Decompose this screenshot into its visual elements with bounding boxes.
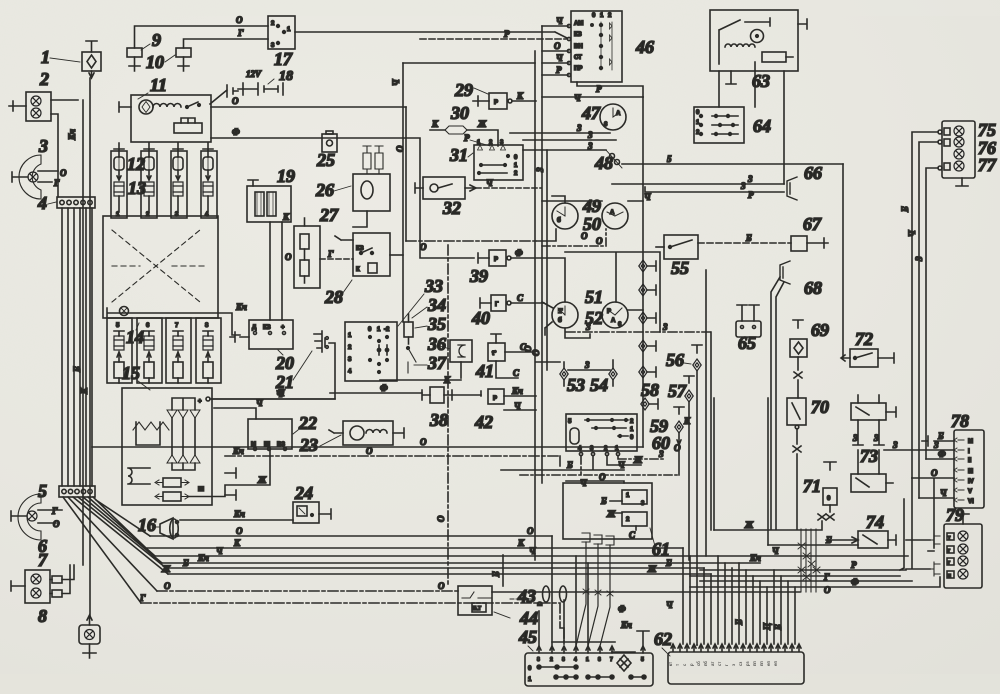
svg-text:+: + [198,399,202,405]
wire 2 to vertical [51,100,78,197]
connector 48 [606,150,622,168]
ignition switch 33 [345,322,397,381]
ammeter 47 [600,104,626,130]
svg-text:22: 22 [298,413,317,433]
hazard switches 73 [851,395,896,492]
svg-text:К: К [282,212,290,222]
wiper switch 60 [566,414,637,456]
svg-text:Кч: Кч [511,386,523,396]
svg-text:23: 23 [299,435,318,455]
gauge 52 [602,302,628,328]
svg-text:8: 8 [38,606,47,626]
label 9 [141,30,161,50]
svg-text:С: С [629,530,636,540]
trunk vertical З [535,150,547,370]
svg-text:Г: Г [139,593,146,603]
svg-text:Ф: Ф [618,604,626,614]
svg-text:О: О [420,242,427,252]
svg-text:3: 3 [584,360,590,370]
svg-text:30: 30 [450,103,469,123]
svg-text:3: 3 [747,174,753,184]
connector strip 62 [668,644,804,684]
svg-text:38: 38 [429,410,448,430]
wire О dash vertical [436,245,448,586]
svg-text:О: О [236,15,243,25]
resistor 9 [127,48,142,71]
svg-text:Р: Р [464,133,470,143]
switch 32 [415,177,476,199]
svg-text:Р: Р [851,560,857,570]
svg-text:42: 42 [474,412,493,432]
fuse column 3 [171,149,187,218]
bus Б right [768,535,858,545]
svg-text:Б: Б [734,619,744,626]
svg-text:Р: Р [607,309,611,315]
bracket connectors 79 [906,534,940,576]
spark unit 22 [248,419,292,451]
lamp cluster 79 [944,514,982,588]
bus Ч [155,546,908,556]
svg-text:Б: Б [491,571,501,578]
svg-text:Ж: Ж [161,564,171,574]
flasher relay 1 [82,41,101,78]
svg-text:14: 14 [126,327,144,347]
connector 56 [692,345,702,645]
svg-text:КЗ: КЗ [263,325,271,331]
svg-text:Р: Р [556,65,562,75]
svg-text:44: 44 [519,608,538,628]
svg-text:Д: Д [252,325,257,331]
label 14 [126,323,144,347]
central switch 46 [571,11,622,82]
wire vertical B [82,100,84,565]
label 23 [299,435,341,455]
label 26 [315,180,351,200]
bus Кч [162,553,761,563]
svg-text:Б: Б [825,535,832,545]
svg-text:IV: IV [968,479,974,485]
vertical З trunk [391,63,405,322]
connector 68 [780,261,790,284]
wire labels 5-6 [51,506,60,529]
verticals from buses up [900,478,934,570]
svg-text:О: О [285,252,292,262]
svg-text:СТ: СТ [574,55,582,61]
connector 59 [674,407,691,475]
connector 53 [560,362,568,386]
label 21 [275,351,312,392]
svg-text:-2: -2 [384,327,390,333]
fuse panel 78 [954,430,984,508]
lamp unit 7-8 [11,565,74,603]
svg-text:К: К [431,119,439,129]
bus О dash [157,581,458,591]
marker connector column [639,97,656,447]
svg-text:71: 71 [803,476,821,496]
wire 5 vertical to 72 [842,164,844,358]
svg-text:29: 29 [454,80,473,100]
connector 66 [787,177,797,200]
svg-text:VI: VI [968,499,974,505]
svg-text:II: II [968,458,972,464]
motor 23 [329,421,404,445]
svg-text:Б: Б [937,431,944,441]
fuses 43 [492,586,800,606]
svg-text:65: 65 [738,333,756,353]
fuse 30 [430,119,498,146]
svg-text:Ч: Ч [666,600,673,610]
svg-text:Ч: Ч [391,79,401,86]
svg-text:III: III [968,469,973,475]
relay 39 [478,248,565,302]
label 11 [138,75,167,99]
svg-text:47: 47 [581,103,601,123]
wire frame verticals mid [706,270,711,556]
svg-text:2: 2 [39,69,49,89]
svg-text:3: 3 [740,181,746,191]
wire З to 78 [884,440,954,450]
fuse block lower 6 [137,318,162,383]
svg-text:41: 41 [475,361,494,381]
svg-text:Ж: Ж [633,455,643,465]
drops into 62 right [739,563,795,644]
svg-text:Ч: Ч [486,178,493,188]
svg-text:А: А [616,111,621,117]
svg-text:Б: Б [182,558,189,568]
svg-text:7: 7 [610,657,613,663]
wires gauge tops [542,192,651,203]
svg-text:т: т [675,664,680,666]
fuse box 45 [525,631,653,686]
svg-text:69: 69 [811,320,829,340]
svg-text:15: 15 [122,363,140,383]
svg-text:3: 3 [587,130,593,140]
clamp 36 [380,340,472,385]
svg-text:51: 51 [585,287,603,307]
svg-text:36: 36 [427,334,446,354]
wire loom verticals left [62,208,92,486]
svg-text:Ш: Ш [198,487,204,493]
bus Ф right [700,577,912,587]
svg-text:D: D [538,601,544,606]
svg-text:К: К [79,387,89,395]
svg-text:64: 64 [753,116,771,136]
svg-text:О: О [596,236,603,246]
wire vertical K [89,78,91,616]
svg-text:С: С [517,293,524,303]
wire labels right verticals [900,206,924,262]
wire Б dash 55 to 67 [698,233,791,243]
svg-text:К: К [683,416,691,426]
label 44 [494,608,538,628]
wire 19 down to 20 [270,222,282,320]
wire O from 11 [211,96,406,107]
switch 37 [407,347,416,373]
ignition unit 20 [230,320,293,349]
label 10 [146,52,175,72]
svg-text:З: З [892,440,898,450]
svg-text:5: 5 [667,154,672,164]
svg-text:67: 67 [803,214,822,234]
svg-text:Ж: Ж [257,475,267,485]
label 22 [293,413,317,434]
wire labels near 3 [53,168,67,188]
fuse 67 [791,236,828,251]
svg-text:кт: кт [668,662,673,666]
svg-text:Ж: Ж [606,509,616,519]
wires into 46 [542,16,571,77]
drops into 62 left [683,548,732,645]
svg-text:п: п [948,573,951,579]
svg-text:З: З [535,167,545,173]
svg-text:70: 70 [811,397,829,417]
svg-text:З: З [852,433,858,443]
svg-text:+: + [281,325,285,331]
svg-text:еп: еп [773,660,778,666]
plug unit 26 [353,146,390,211]
svg-text:18: 18 [279,69,293,84]
turn switch 61 [563,483,652,540]
connector 18 [238,69,293,95]
bus Р right [700,560,906,570]
svg-text:66: 66 [804,163,822,183]
svg-text:39: 39 [469,266,488,286]
wire Ж from generator [188,449,270,497]
svg-text:Ч: Ч [216,546,223,556]
fuse block lower 5 [107,318,132,383]
svg-text:Р: Р [596,84,602,94]
labels 33-37 [398,276,443,326]
ignition distributor 63 [710,10,807,71]
svg-text:35: 35 [427,314,446,334]
headlamp 3 [12,155,58,199]
resistor unit 27 [294,218,320,288]
wire Ч dash from 32 [476,178,541,188]
wire Ж top of bundle [714,514,826,530]
plug 21 [314,331,328,352]
wires 63 down [719,71,784,184]
ground T bars [225,468,236,500]
svg-text:сб: сб [696,661,701,666]
svg-text:Р: Р [494,100,498,106]
svg-text:АМ: АМ [574,21,583,27]
connector block 4 [57,197,95,208]
svg-text:Б: Б [900,206,910,213]
lamp unit 2 [9,92,51,121]
bus Г right [690,572,900,582]
wire 26 to 28 [335,211,367,240]
connector 69 [790,320,807,398]
svg-text:б: б [557,217,561,224]
svg-text:Ч: Ч [556,16,563,26]
svg-text:74: 74 [866,512,884,532]
svg-text:20: 20 [275,353,294,373]
svg-text:Ч: Ч [574,93,581,103]
wires 68 down [771,277,784,529]
svg-text:Г: Г [237,28,244,38]
svg-text:56: 56 [666,350,684,370]
bus О lower [150,526,552,536]
wire Ф from 11 [211,127,474,258]
svg-text:Р: Р [504,29,510,39]
svg-text:З: З [658,449,664,459]
svg-text:О: О [232,96,239,106]
svg-text:Ч: Ч [256,398,263,408]
svg-text:пп: пп [759,661,764,666]
svg-text:55: 55 [671,258,689,278]
svg-text:8: 8 [562,657,565,663]
svg-text:сз: сз [738,662,743,666]
svg-text:10: 10 [146,52,164,72]
svg-text:б: б [558,317,562,324]
svg-text:О: О [824,585,831,595]
fuse column 2 [141,149,157,218]
wire box edge vertical [714,398,768,545]
svg-text:О: О [236,526,243,536]
label 28 [324,280,352,307]
plug 65 [736,305,761,337]
relay 40 [480,293,544,311]
svg-text:53: 53 [567,375,585,395]
gauge 51 [552,302,578,328]
svg-text:Кч: Кч [67,129,77,141]
connector bundle hatched [798,529,820,592]
wire horn to 24 [180,509,331,520]
svg-text:3: 3 [576,123,582,133]
svg-text:73: 73 [860,446,878,466]
label 4 [37,193,56,213]
wires to 78 [912,449,954,498]
svg-text:12: 12 [127,154,145,174]
bus К [147,538,683,548]
svg-text:К: К [233,538,241,548]
svg-text:54: 54 [590,375,608,395]
svg-text:О: О [436,515,446,522]
wire fan diagonals [63,497,168,603]
fuse block lower 8 [196,318,221,383]
svg-text:Б: Б [773,624,783,631]
resistor 10 [176,48,191,71]
svg-text:Б: Б [72,366,82,373]
wire Р from 46 bottom [577,82,643,97]
svg-text:пб: пб [703,661,708,666]
svg-text:5: 5 [641,657,644,663]
labels 75 76 77 [978,120,997,175]
label 16 [138,515,159,535]
wire 5 long [622,154,843,164]
wire Р to 66 [645,187,784,200]
svg-text:С: С [513,368,520,378]
svg-text:25: 25 [316,150,335,170]
sensor 25 [322,131,337,152]
headlamp 5-6 [11,494,62,540]
wire С 41 to trunk [505,342,534,352]
svg-text:О: О [164,581,171,591]
svg-text:Ч: Ч [618,460,625,470]
wires to lamp cluster [912,132,938,498]
svg-text:Б: Б [745,233,752,243]
relay regulator 11 [119,95,211,142]
svg-text:Ч: Ч [514,401,521,411]
svg-text:Кч: Кч [749,553,761,563]
svg-text:ПР: ПР [574,66,582,72]
label 43 [510,586,536,606]
ignition coil 19 [247,180,291,222]
svg-text:Ф: Ф [232,127,240,137]
brake switch 24 [293,502,319,523]
svg-text:Ч: Ч [772,546,779,556]
svg-text:Г: Г [327,249,334,259]
wire 9 to switch 17 [135,26,269,48]
fuse block lower 7 [166,318,191,383]
connector 54 [609,360,617,386]
svg-text:Ф: Ф [851,577,859,587]
svg-text:1: 1 [41,47,50,67]
svg-text:г: г [948,548,950,554]
svg-text:О: О [674,443,681,453]
svg-text:40: 40 [471,308,490,328]
svg-text:Ж: Ж [477,119,487,129]
wire 10 to switch 17 [184,39,269,48]
svg-text:Г: Г [51,506,58,516]
vertical О trunk [405,107,407,241]
wire O long mid [92,437,643,447]
trunk vertical 1 [534,51,536,560]
svg-text:О: О [527,526,534,536]
svg-text:3: 3 [38,136,48,156]
resistor 35 [404,314,413,344]
svg-text:75: 75 [978,120,996,140]
svg-text:79: 79 [946,505,964,525]
svg-text:К: К [356,267,360,273]
bus Ж [161,564,711,574]
wires 60 bottom [501,449,679,488]
thermo relay 41 [488,334,520,378]
marker lamp bottom [79,615,100,658]
svg-text:57: 57 [668,381,687,401]
switch 55 [656,235,698,259]
svg-text:К: К [516,91,524,101]
label 20 [275,350,294,373]
wire 21 to right [212,343,335,399]
svg-text:О: О [931,468,938,478]
relay 29 [473,91,536,109]
svg-text:А: А [610,210,615,216]
svg-text:19: 19 [277,166,295,186]
battery 12V [210,69,262,104]
svg-text:ВН: ВН [574,44,583,50]
svg-text:О: О [60,168,67,178]
horizontal junction y63 [403,62,535,64]
connector 71 [823,462,837,520]
svg-text:13: 13 [128,178,146,198]
label 31 [449,145,473,165]
svg-text:О: О [581,231,588,241]
svg-text:Г: Г [495,302,499,308]
wire 3 bus dash [566,322,710,332]
svg-text:12V: 12V [246,69,262,79]
bus Б [166,558,704,568]
svg-text:48: 48 [594,153,613,173]
wire Г dash 27 to 28 [320,249,403,259]
svg-text:26: 26 [315,180,334,200]
wire Kч bus from 22 [225,446,560,466]
svg-text:Ч: Ч [556,53,563,63]
svg-text:62: 62 [654,629,672,649]
label 61 [650,528,670,559]
horn 16 [160,518,179,539]
svg-text:1: 1 [586,657,589,663]
